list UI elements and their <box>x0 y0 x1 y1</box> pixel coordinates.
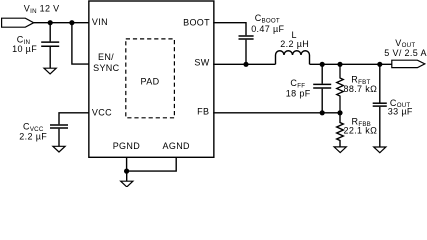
ground symbol COUT <box>374 147 386 153</box>
ground symbol PGND <box>121 181 133 187</box>
wire FB line <box>213 112 340 114</box>
wire COUT lower <box>379 107 381 147</box>
svg-text:SW: SW <box>194 58 209 68</box>
capacitor C_IN <box>41 42 59 46</box>
svg-text:22.1 kΩ: 22.1 kΩ <box>344 126 378 136</box>
wire PGND stub <box>126 157 128 171</box>
svg-text:CBOOT: CBOOT <box>255 13 280 24</box>
wire input to VIN pin <box>34 22 89 24</box>
wire CFF upper <box>321 64 323 83</box>
wire inductor to VOUT <box>310 63 392 65</box>
wire SW to inductor <box>213 63 275 65</box>
wire CIN branch upper <box>49 23 51 42</box>
node junction FB/RFBB <box>337 110 342 115</box>
node junction CIN tap <box>48 20 53 25</box>
svg-text:88.7 kΩ: 88.7 kΩ <box>344 84 378 94</box>
wire COUT upper <box>379 64 381 102</box>
wire CBOOT to SW <box>245 40 247 65</box>
wire to system ground <box>126 171 128 181</box>
node junction PGND/AGND <box>124 169 129 174</box>
node junction CFF bottom <box>320 110 325 115</box>
svg-text:2.2 µH: 2.2 µH <box>280 39 309 49</box>
svg-text:10 µF: 10 µF <box>12 44 37 54</box>
node junction COUT tap <box>377 62 382 67</box>
wire CVCC lower <box>58 129 60 147</box>
svg-text:VIN 12 V: VIN 12 V <box>24 4 60 15</box>
capacitor C_FF <box>313 84 331 88</box>
svg-text:2.2 µF: 2.2 µF <box>19 132 47 142</box>
ground symbol CVCC <box>53 146 65 152</box>
wire CIN branch lower <box>49 47 51 68</box>
svg-text:BOOT: BOOT <box>183 17 210 27</box>
svg-text:VCC: VCC <box>92 107 112 117</box>
wire BOOT branch <box>213 23 246 36</box>
output terminal flag VOUT <box>392 60 425 67</box>
IC body U1 <box>89 1 214 157</box>
wire CFF lower <box>321 89 323 113</box>
input terminal flag VIN <box>2 18 34 27</box>
node junction EN tap <box>69 20 74 25</box>
svg-text:5 V/ 2.5 A: 5 V/ 2.5 A <box>384 48 427 58</box>
svg-text:EN/: EN/ <box>98 52 114 62</box>
resistor R_FBB <box>337 113 344 147</box>
svg-text:33 µF: 33 µF <box>388 107 413 117</box>
inductor L <box>276 51 310 65</box>
svg-text:AGND: AGND <box>162 141 190 151</box>
svg-text:18 pF: 18 pF <box>286 89 311 99</box>
svg-text:PGND: PGND <box>113 141 141 151</box>
resistor R_FBT <box>337 64 344 113</box>
thermal pad dashed box <box>126 39 175 118</box>
capacitor C_OUT <box>373 103 387 106</box>
svg-text:FB: FB <box>197 107 209 117</box>
ground symbol CIN <box>44 68 56 74</box>
svg-text:VIN: VIN <box>92 17 108 27</box>
capacitor C_BOOT <box>239 36 254 39</box>
svg-text:SYNC: SYNC <box>93 63 120 73</box>
node junction CFF top <box>320 62 325 67</box>
wire VCC branch <box>59 113 89 124</box>
wire AGND stub <box>127 157 177 171</box>
ground symbol RFBB <box>334 147 346 153</box>
svg-text:PAD: PAD <box>141 77 160 87</box>
wire EN/SYNC branch <box>72 23 89 64</box>
node junction RFBT top <box>337 62 342 67</box>
svg-text:0.47 µF: 0.47 µF <box>251 24 284 34</box>
node junction CBOOT/SW <box>243 62 248 67</box>
capacitor C_VCC <box>50 125 68 128</box>
